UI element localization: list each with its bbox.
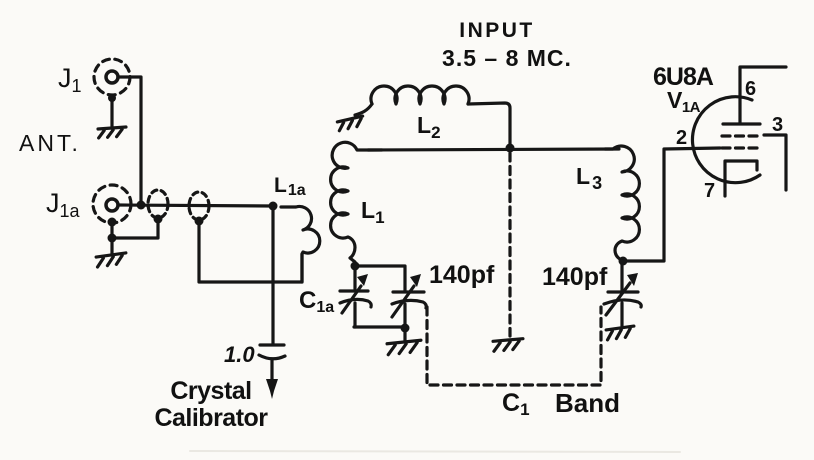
svg-text:3: 3 (772, 114, 783, 136)
svg-text:6: 6 (745, 78, 756, 100)
wire crystal calibrator drop (271, 206, 274, 344)
wire C1a parallel bottom (354, 325, 406, 328)
capacitor 1.0 top plate (260, 343, 284, 346)
svg-text:L1a: L1a (274, 174, 306, 199)
svg-text:7: 7 (704, 180, 715, 202)
ground lead C1a (403, 328, 406, 341)
ground under 140pf right (606, 326, 635, 340)
arrow to crystal calibrator (266, 359, 278, 399)
tube screen grid dashed (722, 134, 762, 137)
ground lead of J1a (110, 222, 113, 254)
wire C1a left bottom lead (353, 303, 356, 327)
ground under J1 (98, 127, 127, 138)
dashed gang link C1 (427, 307, 601, 385)
junction dot L3 bottom (619, 257, 628, 266)
wire contact S1 to ground bus (112, 221, 158, 238)
svg-text:140pf: 140pf (429, 261, 495, 289)
capacitor 1.0 bottom plate (259, 355, 285, 359)
ground at L2 (337, 116, 364, 131)
svg-text:Band: Band (555, 388, 620, 418)
variable capacitor C1a left section (340, 274, 371, 313)
svg-text:C1: C1 (502, 389, 530, 419)
wire contact S2 to L1a bottom (199, 223, 302, 282)
connector J1a (93, 185, 131, 223)
inductor L3 (605, 146, 639, 262)
ground under J1a (96, 253, 127, 267)
svg-text:3.5 – 8 MC.: 3.5 – 8 MC. (442, 45, 572, 71)
switch contact S2 ellipse (189, 192, 209, 220)
junction dot antenna tap (269, 202, 278, 211)
junction dot C1a top (351, 262, 360, 271)
switch contact S2 wiper dot (195, 217, 204, 226)
junction dot J1a sleeve (108, 218, 117, 227)
svg-text:L3: L3 (576, 163, 602, 193)
svg-text:Crystal: Crystal (170, 377, 251, 405)
svg-text:1.0: 1.0 (224, 342, 255, 367)
wire 140pf right top lead (620, 261, 623, 291)
wire L2 right end down to bus (468, 103, 510, 149)
switch contact S1 wiper dot (154, 215, 163, 224)
svg-text:Calibrator: Calibrator (154, 404, 268, 432)
junction dot at J1 bus meet (137, 201, 146, 210)
wire main tuned bus (368, 149, 619, 150)
svg-text:V1A: V1A (667, 87, 701, 116)
ground lead of J1 (110, 98, 113, 128)
faint page rule (190, 451, 680, 452)
junction dot ground bus (108, 234, 117, 243)
wire C1a left lead (353, 266, 356, 289)
inductor L1 (331, 142, 382, 266)
svg-text:2: 2 (676, 127, 687, 149)
svg-text:ANT.: ANT. (19, 130, 81, 156)
label Crystal Calibrator (154, 377, 268, 432)
wire L2 left end to ground (355, 104, 372, 115)
wire C1a right bottom lead (403, 304, 406, 327)
wire J1a to L1a (118, 205, 273, 206)
tube control grid dashed (722, 146, 762, 149)
tube V1A envelope (692, 97, 760, 183)
switch contact S1 ellipse (148, 190, 168, 218)
tube plate pin 6 (723, 67, 786, 124)
wire L3 to grid pin 2 (623, 148, 720, 261)
svg-text:6U8A: 6U8A (653, 63, 714, 91)
wire C1a parallel top (355, 266, 405, 291)
svg-text:J1: J1 (58, 63, 82, 96)
svg-text:INPUT: INPUT (459, 19, 535, 42)
wire 140pf right bottom lead (620, 303, 623, 326)
svg-text:140pf: 140pf (542, 263, 608, 291)
junction dot J1 sleeve (108, 94, 116, 102)
ground under C1a (387, 340, 422, 354)
dashed rotor link from bus (508, 153, 511, 336)
svg-text:J1a: J1a (46, 188, 81, 221)
wire J1 tip to vertical bus (118, 77, 141, 205)
svg-text:L2: L2 (417, 112, 441, 142)
variable capacitor C1b 140pf (604, 273, 641, 315)
inductor L2 (371, 86, 469, 104)
svg-text:L1: L1 (361, 197, 385, 227)
junction dot C1a ground (401, 324, 410, 333)
ground under rotor link (493, 339, 524, 352)
connector J1 (94, 59, 130, 95)
tube screen lead pin 3 (764, 135, 786, 190)
variable capacitor C1a right section (392, 274, 426, 317)
junction dot L2 tap (506, 144, 515, 153)
inductor L1a (281, 206, 320, 282)
tube cathode pin 7 (725, 161, 757, 196)
svg-text:C1a: C1a (299, 287, 334, 316)
